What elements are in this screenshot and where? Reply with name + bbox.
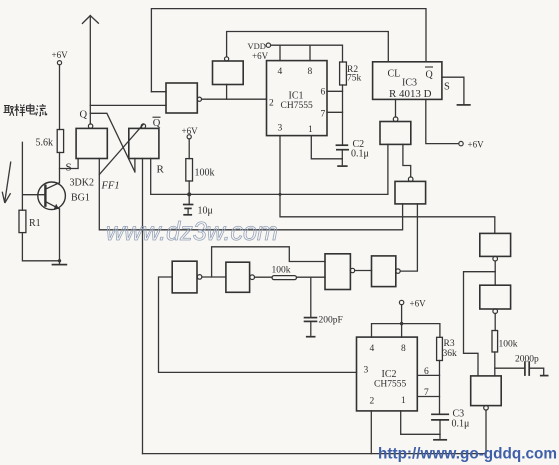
op IC2 CH7555 box: [357, 337, 418, 411]
label 75k: [347, 74, 362, 84]
svg-text:1: 1: [401, 396, 406, 406]
svg-text:R3: R3: [444, 339, 455, 349]
wire R1 branch input line: [21, 142, 23, 210]
node Q output arrow: [82, 16, 98, 124]
wire 100k to gate G4 lower input with 200pF tap: [297, 276, 326, 278]
svg-text:8: 8: [308, 67, 313, 77]
resistor 100k (right column): [492, 331, 498, 353]
wire +6V top-left to 5.6k to node S: [59, 65, 61, 183]
label R3: [444, 339, 455, 349]
svg-text:+6V: +6V: [468, 140, 485, 150]
wire IC3 R pin down to inverter G5: [395, 99, 397, 117]
wire IC2 pin 6: [417, 374, 439, 376]
junction dots: [58, 192, 404, 325]
capacitor C1 10u electrolytic: [183, 205, 194, 214]
label 36k: [443, 349, 458, 359]
label IC2 pin 1: [401, 396, 406, 406]
capacitor C2 0.1u: [336, 145, 349, 165]
label +6V under VDD: [252, 51, 269, 61]
wire IC3 D pin to +6V terminal: [426, 99, 459, 143]
wire 100k right bottom to G9 with 2000p tap: [494, 352, 496, 376]
label IC1 pin 8: [308, 67, 313, 77]
resistor 100k (left, at R node): [186, 159, 193, 181]
terminal +6V above IC2: [399, 300, 403, 304]
label IC2 pin 2: [370, 397, 375, 407]
wire IC2 VDD rail pins 4,8 and R3: [372, 305, 440, 338]
svg-text:http://www.go-gddq.com: http://www.go-gddq.com: [378, 446, 557, 463]
terminal VDD +6V above IC1: [266, 43, 270, 47]
wire Q-bar cross-couple diagonal to FF1 left gate: [99, 124, 143, 174]
label +6V above IC2: [410, 299, 427, 309]
label R 4013 D: [389, 89, 432, 100]
svg-text:IC2: IC2: [382, 369, 397, 380]
svg-text:3: 3: [278, 124, 283, 134]
svg-text:0.1μ: 0.1μ: [452, 419, 470, 430]
inverter G8 right column: [480, 285, 511, 313]
inverter G3b chain: [226, 262, 255, 292]
arrow sampling current indicator: [2, 162, 11, 204]
op IC1 CH7555 box: [267, 61, 328, 136]
wire gate G1 upper input: [151, 91, 166, 93]
svg-text:IC1: IC1: [289, 91, 304, 102]
label 200pF: [319, 316, 343, 326]
svg-text:FF1: FF1: [101, 181, 120, 192]
wire IC2 pin 7: [417, 396, 439, 398]
wire G4b output up to inverter G6 right lead: [400, 204, 417, 271]
svg-text:2: 2: [370, 397, 375, 407]
svg-text:Q: Q: [80, 110, 88, 121]
wire IC2 pin 1 to C3 bottom: [401, 411, 440, 434]
wire transistor base lead: [23, 194, 44, 196]
wire IC3 S pin to ground: [442, 77, 464, 104]
wire gate G2 output to IC3 CL: [227, 32, 389, 62]
svg-text:6: 6: [321, 88, 326, 98]
svg-text:100k: 100k: [499, 340, 518, 350]
label 5.6k: [36, 138, 54, 149]
wire +6V mid terminal to 100k: [188, 139, 190, 159]
wire G3b output to 100k horizontal: [255, 276, 272, 278]
label Q: [80, 110, 88, 121]
label R node: [157, 164, 165, 176]
gate G1 (NAND): [166, 83, 201, 113]
wire VDD rail to R2 and IC1 pins 4,8: [271, 45, 343, 62]
label IC1 pin 7: [321, 110, 326, 120]
label IC1 pin 6: [321, 88, 326, 98]
svg-text:75k: 75k: [347, 74, 362, 84]
wire G8 output to 100k right: [494, 313, 496, 330]
resistor 5.6k: [57, 130, 63, 153]
label 100k right: [499, 340, 518, 350]
label +6V top-left: [52, 50, 69, 60]
inverter G4b chain: [372, 256, 401, 287]
label 0.1u (C2): [351, 149, 369, 160]
wire 200pF tap down: [310, 277, 312, 317]
ground below 10u: [183, 214, 192, 216]
wire feedback to gate G4 upper input: [212, 247, 325, 277]
inverter G9 bottom right: [471, 376, 502, 410]
svg-text:Q: Q: [426, 70, 434, 81]
svg-text:7: 7: [424, 388, 429, 398]
label C2: [353, 139, 365, 150]
terminal +6V right of IC3 D: [459, 141, 463, 145]
FF1 right gate: [129, 124, 159, 159]
resistor R1: [19, 210, 26, 232]
label IC1 pin 1: [308, 125, 313, 135]
label VDD: [248, 41, 266, 51]
svg-text:4: 4: [370, 344, 375, 354]
svg-text:6: 6: [424, 367, 429, 377]
wire chain G3a output to G3b with feedback tap: [202, 276, 226, 278]
wire Q cross-couple diagonal to FF1 right gate: [90, 113, 135, 172]
svg-text:2000p: 2000p: [515, 355, 539, 365]
inverter G5 below IC3: [380, 117, 411, 145]
svg-text:CH7555: CH7555: [281, 101, 313, 111]
wire IC1 pin 3 down and right to inverter G7: [280, 136, 495, 234]
label Q-bar: [153, 117, 161, 129]
wire IC2 pin 2 to bottom frame: [370, 411, 372, 454]
svg-text:CH7555: CH7555: [374, 380, 406, 390]
svg-text:1: 1: [308, 125, 313, 135]
wire FF1 left gate lead down to long bus and up to inverter G6: [99, 159, 402, 230]
svg-text:7: 7: [321, 110, 326, 120]
label R2: [347, 65, 358, 75]
label IC1: [289, 91, 304, 102]
inverter G6: [395, 177, 426, 204]
svg-text:0.1μ: 0.1μ: [351, 149, 369, 160]
gate G4 (NAND) chain: [325, 254, 355, 290]
op IC3 4013 box: [373, 62, 442, 100]
ground below C3: [433, 439, 447, 441]
FF1 left gate: [76, 124, 107, 159]
svg-text:4: 4: [278, 67, 283, 77]
resistor R3 36k: [437, 337, 443, 360]
wire left frame vertical FF1 to bottom frame: [142, 159, 144, 454]
wire top frame from FF1 gate G1 input to IC3 Q-bar: [151, 9, 426, 92]
svg-text:100k: 100k: [195, 168, 215, 179]
svg-text:+6V: +6V: [410, 299, 427, 309]
label FF1: [101, 181, 120, 192]
svg-text:2: 2: [269, 99, 274, 109]
label +6V right of D: [468, 140, 485, 150]
ground below 200pF: [306, 336, 316, 338]
terminal +6V mid left of IC1: [187, 135, 191, 139]
label IC3: [402, 78, 417, 89]
transistor Q1 BG1: [38, 182, 66, 210]
wire IC1 pin 7: [327, 111, 343, 113]
svg-text:CL: CL: [388, 69, 401, 80]
label 100k chain: [272, 266, 291, 276]
gate G2 (inverter to CL): [213, 57, 244, 85]
capacitor C3 0.1u: [431, 414, 449, 439]
svg-text:+6V: +6V: [252, 51, 269, 61]
label CH7555 (IC1): [281, 101, 313, 111]
wire inverter G5 to G6 jog: [403, 144, 411, 177]
svg-text:100k: 100k: [272, 266, 291, 276]
resistor R2 75k: [340, 62, 347, 85]
wire gate G2 input tap: [226, 85, 228, 100]
ground at IC3 S pin: [457, 104, 471, 106]
wire IC2 pin 3 to inverter chain input: [159, 277, 357, 372]
svg-text:200pF: 200pF: [319, 316, 343, 326]
wire R3 bottom to C3 with pins 6,7 taps: [439, 361, 441, 414]
label 2000p: [515, 355, 539, 365]
label IC1 pin 3: [278, 124, 283, 134]
label IC2 pin 3: [364, 366, 369, 376]
inverter G3a chain: [172, 261, 202, 293]
label BG1: [71, 193, 90, 204]
svg-text:IC3: IC3: [402, 78, 417, 89]
wire IC1 pin 6: [327, 90, 343, 92]
wire R1 bottom to emitter ground node: [22, 233, 59, 261]
wire R2 bottom to C2 top: [342, 85, 344, 145]
wire node R long bus from FF1 right gate to inverter G5: [151, 144, 388, 194]
wire emitter down: [59, 209, 61, 264]
url www.go-gddq.com: [378, 446, 557, 463]
node terminal circles: [57, 43, 463, 305]
label CH7555 (IC2): [374, 380, 406, 390]
ground at 2000p end: [540, 375, 549, 377]
wire inverter G7 output to G8 with branch to G9: [464, 261, 496, 376]
svg-text:S: S: [444, 82, 450, 93]
wire gate G1 output to IC1 pin 2: [202, 98, 267, 100]
label 3DK2: [70, 178, 94, 189]
label 100k left: [195, 168, 215, 179]
wire 100k bottom to 10u cap junction: [188, 181, 190, 204]
wire bottom frame: [143, 453, 487, 455]
capacitor 2000p: [525, 361, 529, 376]
wire IC1 pin 1 to C2: [311, 136, 342, 159]
svg-text:R 4013 D: R 4013 D: [389, 89, 432, 100]
label R1: [29, 218, 41, 229]
label S (IC3): [444, 82, 450, 93]
svg-text:BG1: BG1: [71, 193, 90, 204]
label IC2 pin 7: [424, 388, 429, 398]
wire 2000p tap: [495, 368, 544, 374]
watermark www.dz3w.com: [106, 216, 278, 246]
ground below C2: [337, 165, 347, 167]
svg-text:VDD: VDD: [248, 41, 266, 51]
label S node: [66, 162, 72, 174]
resistor 100k (chain, horizontal): [272, 276, 297, 280]
wire G4 output to G4b: [355, 270, 372, 272]
svg-text:5.6k: 5.6k: [36, 138, 54, 149]
svg-text:36k: 36k: [443, 349, 458, 359]
wire G9 output to bottom frame: [485, 410, 487, 454]
svg-text:3: 3: [364, 366, 369, 376]
svg-text:+6V: +6V: [182, 126, 199, 136]
label IC1 pin 2: [269, 99, 274, 109]
label IC1 pin 4: [278, 67, 283, 77]
svg-text:www.dz3w.com: www.dz3w.com: [106, 216, 278, 246]
label C3: [453, 409, 465, 420]
wire node S from FF1 to transistor collector: [60, 159, 79, 169]
label IC2 pin 8: [401, 344, 406, 354]
capacitor 200pF: [304, 318, 318, 336]
svg-text:3DK2: 3DK2: [70, 178, 94, 189]
label Q-bar (IC3): [425, 67, 434, 81]
svg-text:R1: R1: [29, 218, 41, 229]
terminal +6V top-left: [57, 61, 61, 65]
ground below emitter: [52, 264, 68, 266]
label IC2: [382, 369, 397, 380]
svg-text:R: R: [157, 164, 165, 176]
text 取样电流 (hand drawn): [4, 104, 47, 116]
svg-text:8: 8: [401, 344, 406, 354]
label 10u: [198, 206, 213, 217]
label 0.1u (C3): [452, 419, 470, 430]
label CL (IC3): [388, 69, 401, 80]
svg-text:Q: Q: [153, 118, 161, 129]
inverter G7 right column: [480, 233, 511, 261]
svg-text:S: S: [66, 162, 72, 174]
label +6V mid: [182, 126, 199, 136]
label IC2 pin 4: [370, 344, 375, 354]
label IC2 pin 6: [424, 367, 429, 377]
wire Q to gate G1 lower input: [90, 104, 166, 106]
svg-text:+6V: +6V: [52, 50, 69, 60]
svg-text:10μ: 10μ: [198, 206, 213, 217]
